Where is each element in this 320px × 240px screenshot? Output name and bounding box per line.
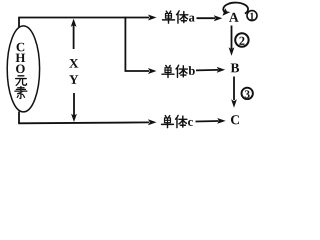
label O <box>16 65 25 74</box>
circled 3 <box>242 88 253 99</box>
label su <box>15 86 27 98</box>
arrowhead into A <box>214 15 223 21</box>
ellipse C H O yuan-su <box>7 26 39 112</box>
wire arrow c to C shaft <box>196 120 219 123</box>
label A <box>229 13 239 22</box>
wire arrow A to B shaft <box>231 26 233 50</box>
arrowhead into 单体c <box>148 119 157 125</box>
wire ellipse-bottom riser <box>18 112 20 124</box>
wire Y down-arrow shaft <box>73 93 75 116</box>
arrowhead into 单体b <box>148 68 157 74</box>
circled 1 <box>247 11 257 21</box>
arrowhead of self-loop <box>223 8 231 15</box>
label C product <box>231 115 239 124</box>
wire arrow a to A shaft <box>197 17 216 19</box>
label dan-ti-c <box>162 116 174 128</box>
label B <box>231 63 239 72</box>
arrowhead up X <box>71 19 77 27</box>
arrowhead b-to-B <box>217 67 226 73</box>
wire arrow b to B shaft <box>196 69 218 72</box>
circled 2 <box>235 33 248 46</box>
label X <box>69 59 78 68</box>
arrowhead c-to-C <box>217 118 226 124</box>
wire X up-arrow shaft <box>73 25 75 49</box>
label Y <box>69 75 78 84</box>
wire ellipse-top riser <box>18 18 20 28</box>
label C <box>17 43 25 52</box>
arrowhead into 单体a <box>148 15 157 21</box>
label dan-ti-a <box>163 11 175 23</box>
wire bottom horizontal <box>18 121 149 124</box>
wire branch riser <box>125 17 149 71</box>
arrowhead B-to-C <box>231 99 237 108</box>
label dan-ti-b <box>162 65 174 77</box>
wire arrow B to C shaft <box>233 77 235 101</box>
arrowhead down Y <box>71 114 77 122</box>
arrowhead A-to-B <box>229 47 235 56</box>
label yuan <box>16 76 27 86</box>
self-loop arc over A <box>223 3 248 14</box>
wire top horizontal <box>18 17 149 19</box>
label H <box>16 54 26 62</box>
